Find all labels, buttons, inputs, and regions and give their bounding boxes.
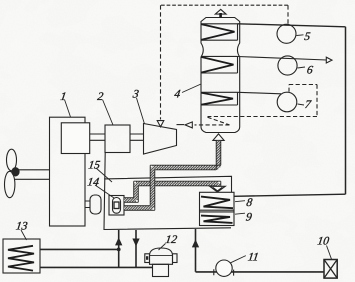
node junction dot — [117, 248, 121, 252]
wire dashed path top — [289, 84, 317, 86]
pump 14 outer box — [109, 196, 124, 216]
coil box 1 in column — [201, 24, 238, 40]
leader label 11 — [231, 256, 246, 263]
arrow hollow down-arrow into turbine 3 — [157, 121, 164, 127]
wire dashed frame top edge — [161, 4, 289, 6]
leader label 3 — [137, 98, 145, 124]
compressor 12 dome — [150, 248, 173, 264]
wire riser from box15 to bottom pipe — [195, 229, 197, 272]
leader label 7 — [298, 104, 305, 105]
propeller hub — [12, 168, 19, 176]
svg-text:10: 10 — [317, 236, 330, 248]
wire dashed path right leg — [316, 85, 318, 117]
pump 14 inner rect — [114, 202, 119, 209]
heat exchanger 8-9 box — [200, 192, 235, 225]
coil 8 zigzag — [201, 197, 233, 209]
wire dashed right leg down to circle 5 — [287, 5, 289, 24]
wire right frame vertical — [345, 27, 347, 194]
column 4 outline — [201, 18, 240, 133]
coupling oval — [90, 195, 101, 214]
divider lines — [200, 210, 235, 212]
wire dashed path circle7 riser — [288, 85, 290, 92]
coil box 2 in column — [201, 56, 238, 73]
svg-text:13: 13 — [15, 221, 28, 233]
leader label 1 — [65, 100, 71, 118]
svg-text:14: 14 — [87, 177, 100, 189]
coil box 3 in column — [201, 92, 238, 105]
radiator 13 serpentine — [8, 246, 34, 271]
circle 6 — [278, 56, 297, 75]
wire line coil2-top to arrow — [238, 57, 327, 61]
leader label 6 — [298, 67, 306, 68]
wire solid stub from turbine to arrow — [177, 124, 185, 126]
wire right frame bottom to heat-exchanger 8 — [234, 194, 346, 196]
valve 10 box with X — [324, 260, 337, 279]
propeller lower blade — [5, 171, 15, 197]
leader label 15 — [96, 168, 112, 182]
leader label 12 — [159, 244, 166, 251]
leader label 2 — [103, 100, 114, 126]
leader label 13 — [21, 230, 27, 240]
pipe B hatched: pump14 to column bottom — [124, 141, 221, 211]
circle 7 — [277, 92, 297, 112]
coupling links engine to oval — [85, 201, 90, 208]
shaft engine to box2 — [90, 134, 105, 140]
leader label 8 — [235, 201, 245, 202]
coil 2 zigzag — [202, 57, 234, 73]
svg-text:11: 11 — [247, 252, 259, 264]
coil 9 zigzag — [201, 216, 233, 223]
wire radiator upper line to junction — [40, 248, 119, 250]
box 2 compressor — [105, 125, 130, 153]
wire riser with down arrow from box15 — [135, 230, 137, 267]
leader label 4 — [182, 84, 201, 93]
svg-text:12: 12 — [165, 234, 178, 246]
wire radiator lower line to compressor12 — [40, 266, 153, 268]
pipe A hatched: pump14 to exchanger 8 — [124, 181, 221, 202]
shaft box2 to turbine — [130, 134, 144, 140]
arrow hollow up-arrow into column bottom — [213, 134, 224, 141]
coil 1 zigzag — [202, 24, 235, 39]
leader label 14 — [95, 185, 114, 198]
wire dashed line to left arrow — [195, 124, 230, 126]
pump 11 circle — [216, 260, 232, 276]
engine 1 box — [50, 117, 86, 226]
compressor 12 right lug — [173, 254, 178, 263]
pump 11 feet — [214, 269, 234, 275]
radiator 13 box — [3, 239, 40, 273]
arrow up — [116, 239, 122, 245]
leader label 5 — [297, 34, 304, 37]
leader label 9 — [235, 213, 245, 214]
arrow hollow up-arrow above column — [215, 9, 226, 14]
wire dashed left leg down to turbine — [160, 5, 162, 119]
wire solid line coil1-top to right frame corner — [238, 24, 346, 27]
propeller upper blade — [7, 149, 17, 171]
arrow down — [133, 239, 139, 245]
turbine 3 trapezoid — [144, 124, 177, 155]
circle 5 — [277, 24, 296, 43]
pump 14 inner capsule — [113, 198, 121, 214]
wire dashed path bottom long — [208, 116, 318, 118]
wire dashed diagonal inside column — [208, 117, 230, 125]
wire line coil3-top to circle 7 — [238, 92, 282, 94]
arrow hollow right arrowhead — [326, 57, 332, 63]
wire riser with up arrow into box15 — [118, 230, 120, 267]
compressor 12 bottom box — [153, 264, 169, 276]
box 15 outline — [104, 153, 232, 230]
leader label 10 — [327, 246, 332, 260]
svg-text:15: 15 — [88, 160, 101, 172]
engine 1 inner box — [61, 123, 89, 154]
wire bottom pipe to valve 10 — [196, 271, 325, 273]
shaft propeller to engine — [14, 170, 50, 180]
compressor 12 left lug — [145, 254, 150, 263]
arrow up — [193, 241, 199, 247]
arrow hollow left arrowhead — [185, 122, 192, 128]
arrow fat hollow down-arrow into exchanger 8 — [210, 186, 226, 192]
coil 3 zigzag — [202, 93, 234, 105]
